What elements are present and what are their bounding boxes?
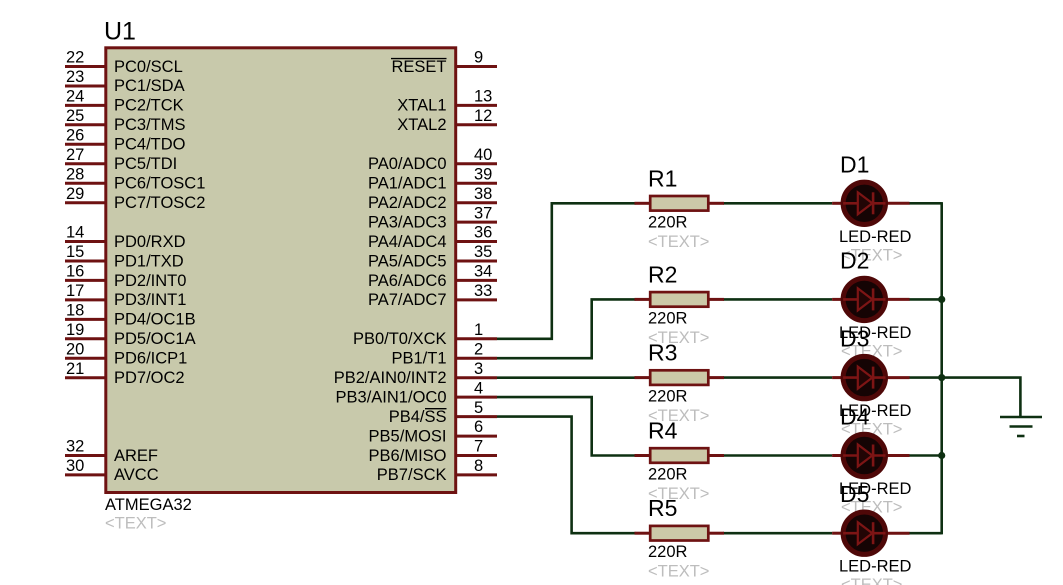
svg-text:R4: R4 xyxy=(648,418,678,444)
pin 37 (PA3/ADC3) xyxy=(368,204,497,231)
resistor R3 xyxy=(635,370,725,385)
pin 23 (PC1/SDA) xyxy=(65,68,185,95)
svg-text:24: 24 xyxy=(66,88,84,106)
svg-text:4: 4 xyxy=(474,379,483,397)
wire R5 to D5 xyxy=(723,532,832,535)
pin 28 (PC6/TOSC1) xyxy=(65,165,205,192)
resistor R4 xyxy=(635,448,725,463)
wire PB0(pin1) to R1 xyxy=(497,203,636,338)
pin 30 (AVCC) xyxy=(65,457,159,484)
svg-text:34: 34 xyxy=(474,263,492,281)
LED D2 (LED-RED) xyxy=(832,278,909,320)
wire D2 cathode to cathode bus xyxy=(909,298,942,301)
pin 4 (PB3/AIN1/OC0) xyxy=(336,379,497,406)
resistor R2 xyxy=(635,292,725,307)
pin 6 (PB5/MOSI) xyxy=(369,418,497,445)
svg-text:8: 8 xyxy=(474,457,483,475)
resistor R1 xyxy=(635,196,725,211)
svg-text:30: 30 xyxy=(66,457,84,475)
pin 2 (PB1/T1) xyxy=(391,340,497,367)
svg-text:PC5/TDI: PC5/TDI xyxy=(114,155,177,173)
svg-text:6: 6 xyxy=(474,418,483,436)
pin 17 (PD3/INT1) xyxy=(65,282,186,309)
wire PB1(pin2) to R2 xyxy=(497,299,636,358)
svg-text:AVCC: AVCC xyxy=(114,466,159,484)
svg-text:PC4/TDO: PC4/TDO xyxy=(114,136,186,154)
svg-text:R3: R3 xyxy=(648,340,677,366)
svg-text:PB3/AIN1/OC0: PB3/AIN1/OC0 xyxy=(336,388,447,406)
svg-text:R2: R2 xyxy=(648,261,677,287)
svg-text:220R: 220R xyxy=(648,543,688,561)
pin 19 (PD5/OC1A) xyxy=(65,321,196,348)
LED D1 (LED-RED) xyxy=(832,182,909,224)
svg-text:PD3/INT1: PD3/INT1 xyxy=(114,291,186,309)
svg-text:33: 33 xyxy=(474,282,492,300)
pin 21 (PD7/OC2) xyxy=(65,360,185,387)
wire R1 to D1 xyxy=(723,202,832,205)
svg-text:PA3/ADC3: PA3/ADC3 xyxy=(368,213,447,231)
svg-text:<TEXT>: <TEXT> xyxy=(648,563,709,581)
LED D5 (LED-RED) xyxy=(832,512,909,554)
pin 36 (PA4/ADC4) xyxy=(368,224,497,251)
wire PB4(pin5) to R5 xyxy=(497,417,636,534)
svg-text:28: 28 xyxy=(66,165,84,183)
LED D3 (LED-RED) xyxy=(832,356,909,398)
svg-text:PB4/SS: PB4/SS xyxy=(389,408,447,426)
pin 34 (PA6/ADC6) xyxy=(368,263,497,290)
svg-text:LED-RED: LED-RED xyxy=(839,558,912,576)
svg-text:220R: 220R xyxy=(648,309,688,327)
svg-text:36: 36 xyxy=(474,224,492,242)
svg-text:PC0/SCL: PC0/SCL xyxy=(114,58,183,76)
pin 24 (PC2/TCK) xyxy=(65,88,184,115)
svg-text:D4: D4 xyxy=(840,404,870,430)
svg-text:RESET: RESET xyxy=(391,58,446,76)
wire D4 cathode to cathode bus xyxy=(909,454,942,457)
pin 22 (PC0/SCL) xyxy=(65,49,183,76)
svg-text:PD5/OC1A: PD5/OC1A xyxy=(114,330,196,348)
pin 26 (PC4/TDO) xyxy=(65,127,186,154)
svg-text:R1: R1 xyxy=(648,165,677,191)
ground symbol xyxy=(1000,417,1042,436)
pin 7 (PB6/MISO) xyxy=(369,438,497,465)
svg-text:PC7/TOSC2: PC7/TOSC2 xyxy=(114,194,205,212)
svg-text:PD7/OC2: PD7/OC2 xyxy=(114,369,185,387)
svg-text:XTAL2: XTAL2 xyxy=(397,116,446,134)
svg-text:D5: D5 xyxy=(840,481,869,507)
svg-text:<TEXT>: <TEXT> xyxy=(841,576,902,585)
resistor R5 xyxy=(635,526,725,541)
svg-text:26: 26 xyxy=(66,127,84,145)
pin 35 (PA5/ADC5) xyxy=(368,243,497,270)
svg-text:LED-RED: LED-RED xyxy=(839,228,912,246)
svg-text:AREF: AREF xyxy=(114,447,158,465)
svg-text:U1: U1 xyxy=(104,18,136,46)
svg-text:PA2/ADC2: PA2/ADC2 xyxy=(368,194,447,212)
pin 1 (PB0/T0/XCK) xyxy=(353,321,497,348)
pin 38 (PA2/ADC2) xyxy=(368,185,497,212)
pin 32 (AREF) xyxy=(65,438,158,465)
junction node at bus / D4 row xyxy=(938,452,945,459)
pin 33 (PA7/ADC7) xyxy=(368,282,497,309)
svg-text:PD0/RXD: PD0/RXD xyxy=(114,233,186,251)
pin 25 (PC3/TMS) xyxy=(65,107,186,134)
pin 18 (PD4/OC1B) xyxy=(65,302,196,329)
svg-text:<TEXT>: <TEXT> xyxy=(105,515,166,533)
pin 13 (XTAL1) xyxy=(397,88,497,115)
svg-text:PA6/ADC6: PA6/ADC6 xyxy=(368,272,447,290)
junction node at bus / D3 row xyxy=(938,374,945,381)
junction node at bus / D2 row xyxy=(938,296,945,303)
svg-text:<TEXT>: <TEXT> xyxy=(648,233,709,251)
svg-text:PA0/ADC0: PA0/ADC0 xyxy=(368,155,447,173)
svg-text:2: 2 xyxy=(474,340,483,358)
svg-text:39: 39 xyxy=(474,165,492,183)
svg-text:PB1/T1: PB1/T1 xyxy=(391,350,446,368)
wire D5 cathode to cathode bus corner xyxy=(909,532,942,535)
svg-text:32: 32 xyxy=(66,438,84,456)
pin 8 (PB7/SCK) xyxy=(377,457,497,484)
wire R2 to D2 xyxy=(723,298,832,301)
svg-text:PA5/ADC5: PA5/ADC5 xyxy=(368,252,447,270)
svg-text:R5: R5 xyxy=(648,495,677,521)
svg-text:PD1/TXD: PD1/TXD xyxy=(114,252,184,270)
svg-text:PC1/SDA: PC1/SDA xyxy=(114,77,185,95)
svg-text:17: 17 xyxy=(66,282,84,300)
svg-text:220R: 220R xyxy=(648,466,688,484)
svg-text:PC6/TOSC1: PC6/TOSC1 xyxy=(114,175,205,193)
svg-text:PA4/ADC4: PA4/ADC4 xyxy=(368,233,447,251)
svg-text:PB6/MISO: PB6/MISO xyxy=(369,447,447,465)
svg-text:PB5/MOSI: PB5/MOSI xyxy=(369,427,447,445)
svg-text:220R: 220R xyxy=(648,388,688,406)
svg-text:22: 22 xyxy=(66,49,84,67)
svg-text:13: 13 xyxy=(474,88,492,106)
svg-text:12: 12 xyxy=(474,107,492,125)
wire R3 to D3 xyxy=(723,376,832,379)
svg-text:D3: D3 xyxy=(840,326,869,352)
svg-text:20: 20 xyxy=(66,340,84,358)
wire cathode bus vertical trunk xyxy=(940,202,943,534)
svg-text:D1: D1 xyxy=(840,151,869,177)
svg-text:PB0/T0/XCK: PB0/T0/XCK xyxy=(353,330,447,348)
svg-text:18: 18 xyxy=(66,302,84,320)
svg-text:23: 23 xyxy=(66,68,84,86)
svg-text:PC2/TCK: PC2/TCK xyxy=(114,97,184,115)
svg-text:27: 27 xyxy=(66,146,84,164)
svg-text:15: 15 xyxy=(66,243,84,261)
svg-text:5: 5 xyxy=(474,399,483,417)
svg-text:19: 19 xyxy=(66,321,84,339)
svg-text:PD4/OC1B: PD4/OC1B xyxy=(114,311,196,329)
pin 9 (RESET) xyxy=(391,49,497,76)
svg-text:PA1/ADC1: PA1/ADC1 xyxy=(368,175,447,193)
svg-text:25: 25 xyxy=(66,107,84,125)
wire R4 to D4 xyxy=(723,454,832,457)
svg-text:14: 14 xyxy=(66,224,84,242)
svg-text:PB2/AIN0/INT2: PB2/AIN0/INT2 xyxy=(334,369,447,387)
pin 16 (PD2/INT0) xyxy=(65,263,186,290)
svg-text:38: 38 xyxy=(474,185,492,203)
IC U1 body (ATMEGA32) xyxy=(106,48,456,493)
pin 14 (PD0/RXD) xyxy=(65,224,186,251)
svg-text:35: 35 xyxy=(474,243,492,261)
svg-text:D2: D2 xyxy=(840,247,869,273)
svg-text:3: 3 xyxy=(474,360,483,378)
wire cathode bus to ground xyxy=(942,378,1021,417)
svg-text:PB7/SCK: PB7/SCK xyxy=(377,466,447,484)
wire PB2(pin3) to R3 xyxy=(497,376,636,379)
pin 15 (PD1/TXD) xyxy=(65,243,184,270)
svg-text:29: 29 xyxy=(66,185,84,203)
svg-text:7: 7 xyxy=(474,438,483,456)
LED D4 (LED-RED) xyxy=(832,434,909,476)
pin 29 (PC7/TOSC2) xyxy=(65,185,205,212)
svg-text:37: 37 xyxy=(474,204,492,222)
svg-text:PC3/TMS: PC3/TMS xyxy=(114,116,186,134)
svg-text:40: 40 xyxy=(474,146,492,164)
svg-text:PD6/ICP1: PD6/ICP1 xyxy=(114,350,187,368)
svg-text:PA7/ADC7: PA7/ADC7 xyxy=(368,291,447,309)
svg-text:9: 9 xyxy=(474,49,483,67)
pin 39 (PA1/ADC1) xyxy=(368,165,497,192)
wire D3 cathode to cathode bus xyxy=(909,376,942,379)
pin 5 (PB4/SS) xyxy=(389,399,497,426)
wire D1 cathode to cathode bus xyxy=(909,202,942,205)
wire PB3(pin4) to R4 xyxy=(497,397,636,455)
svg-text:ATMEGA32: ATMEGA32 xyxy=(105,496,192,514)
pin 3 (PB2/AIN0/INT2) xyxy=(334,360,497,387)
svg-text:1: 1 xyxy=(474,321,483,339)
pin 20 (PD6/ICP1) xyxy=(65,340,187,367)
svg-text:PD2/INT0: PD2/INT0 xyxy=(114,272,186,290)
svg-text:16: 16 xyxy=(66,263,84,281)
pin 27 (PC5/TDI) xyxy=(65,146,177,173)
pin 40 (PA0/ADC0) xyxy=(368,146,497,173)
svg-text:220R: 220R xyxy=(648,213,688,231)
pin 12 (XTAL2) xyxy=(397,107,497,134)
svg-text:21: 21 xyxy=(66,360,84,378)
svg-text:XTAL1: XTAL1 xyxy=(397,97,446,115)
